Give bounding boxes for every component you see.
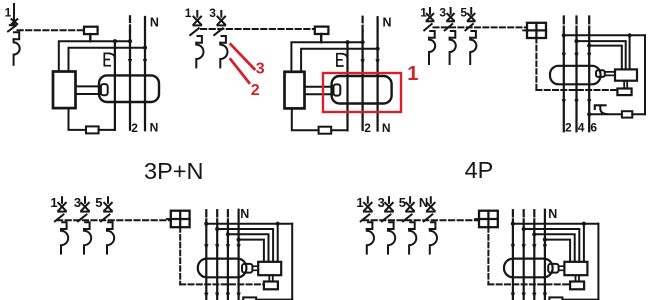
wire: test button left stub	[167, 218, 171, 220]
svg-text:N: N	[383, 16, 392, 30]
svg-text:5: 5	[460, 5, 467, 19]
wire: conductor L1	[512, 219, 514, 300]
node: L1 tap	[562, 33, 566, 37]
relay bottom stub	[269, 275, 273, 281]
relay K4	[258, 262, 281, 275]
wire: L2 tap to relay	[577, 41, 626, 69]
contact: N	[236, 244, 240, 249]
breaker pole 1	[424, 8, 435, 64]
current transformer CT1 (toroid)	[99, 75, 159, 102]
wire: conductor L1 stub	[205, 210, 207, 216]
wire: phase conductor L2 stub	[575, 17, 577, 24]
breaker pole 5	[403, 197, 416, 253]
node: relay feed junction	[628, 33, 632, 37]
node: L2 tap	[215, 227, 219, 231]
contact: neutral	[143, 59, 147, 64]
svg-text:1: 1	[407, 63, 418, 85]
wire: test button left stub	[523, 29, 527, 31]
wire: right rail	[644, 35, 646, 114]
node: L3 tap	[226, 232, 230, 236]
relay bottom stub	[624, 81, 627, 89]
CT pickup plug	[548, 264, 558, 273]
wire: test link (dashed horizontal)	[180, 283, 264, 285]
CT pickup plug	[242, 264, 252, 273]
wire: CT to relay bus	[252, 266, 258, 270]
wire: phase conductor L1	[563, 27, 565, 132]
breaker pole N	[424, 197, 437, 253]
relay K5	[564, 262, 587, 275]
wire: CT to relay bus	[305, 87, 334, 95]
test button T1	[84, 27, 98, 34]
test button T3 (cross box)	[527, 23, 546, 38]
wire: neutral conductor	[376, 17, 378, 130]
wire: neutral conductor	[144, 17, 146, 130]
wire: test resistor run	[256, 299, 292, 300]
test button cross	[479, 211, 498, 228]
wire: L1 tap to right rail	[564, 34, 645, 36]
resistor R2 (test)	[319, 127, 332, 134]
test button T5 (cross box)	[479, 211, 498, 228]
svg-text:2: 2	[364, 121, 371, 135]
node: L2 tap	[522, 227, 526, 231]
contact: L2 lower	[522, 293, 526, 298]
svg-text:N: N	[150, 121, 159, 135]
svg-text:N: N	[382, 121, 391, 135]
node: test junction	[587, 112, 591, 116]
CT pickup plug	[101, 84, 108, 95]
current transformer CT2 (toroid)	[332, 76, 392, 104]
wire: L2 tap to relay	[524, 229, 580, 262]
contact: L1	[204, 244, 208, 249]
breaker pole 1	[361, 197, 374, 253]
wire: L1 tap to right rail	[513, 223, 599, 225]
wire: conductor L2	[216, 219, 218, 300]
wire: conductor L3 stub	[227, 210, 229, 216]
wire: N tap to relay	[545, 240, 570, 262]
wire: conductor L1 stub	[512, 210, 514, 216]
contact: N lower	[543, 293, 547, 298]
svg-text:3P+N: 3P+N	[144, 158, 203, 184]
wire: pole conductor	[129, 31, 131, 130]
wire: test link (dashed horizontal)	[536, 89, 617, 91]
node: L2 tap	[574, 39, 578, 43]
current transformer CT5 (toroid)	[504, 259, 553, 278]
wire: neutral conductor	[238, 210, 240, 300]
wire: relay to N line (lower)	[69, 48, 146, 72]
svg-text:N: N	[548, 207, 557, 221]
wire: CT to relay bus	[605, 72, 615, 76]
test button cross	[527, 23, 546, 38]
svg-text:N: N	[240, 207, 249, 221]
test button T4 (cross box)	[171, 211, 190, 228]
resistor R4 (test)	[243, 297, 256, 300]
contact: L1 lower	[204, 293, 208, 298]
breaker pole 1	[55, 197, 68, 253]
wire: conductor L2 stub	[216, 210, 218, 216]
breaker pole 3	[78, 197, 91, 253]
callout box 1 (CT detection)	[323, 73, 401, 112]
contact: L3 lower	[226, 293, 230, 298]
wire: test link (dashed vertical)	[487, 227, 489, 284]
svg-text:4P: 4P	[465, 157, 494, 183]
relay bottom stub	[576, 275, 580, 281]
svg-text:1: 1	[5, 6, 12, 20]
wire: N tap to relay	[239, 240, 264, 262]
svg-text:1: 1	[356, 195, 363, 210]
contact: L3	[226, 244, 230, 249]
node: N tap	[543, 238, 547, 242]
node: L3 tap	[587, 44, 591, 48]
contact: L3 lower	[587, 99, 591, 104]
wire: phase conductor L3	[588, 27, 590, 132]
contact: L2	[215, 244, 219, 249]
terminal block (trip output)	[617, 89, 631, 96]
wire: conductor L3	[533, 219, 535, 300]
wire: conductor L2 stub	[523, 210, 525, 216]
breaker pole 1	[190, 11, 203, 67]
wire: pole conductor	[361, 31, 363, 130]
wire: test link (dashed vertical)	[179, 227, 181, 284]
terminal block (trip output)	[264, 282, 278, 290]
wire: L3 tap to relay	[534, 234, 574, 261]
resistor R5 (test)	[549, 297, 562, 300]
wire: conductor L2	[523, 219, 525, 300]
contact: pole	[360, 59, 364, 64]
wire: relay to pole line (upper)	[291, 42, 362, 72]
trip solenoid E symbol	[337, 54, 343, 66]
node: test tap junction	[113, 39, 117, 43]
wire: pole conductor (dashed supply)	[129, 16, 131, 30]
node: relay feed junction	[276, 222, 280, 226]
breaker pole 3	[445, 8, 456, 64]
terminal block (trip output)	[570, 282, 584, 290]
contact: L1 lower	[511, 293, 515, 298]
contact: L3	[532, 244, 536, 249]
current transformer CT4 (toroid)	[198, 259, 247, 278]
breaker pole 3	[382, 197, 395, 253]
contact: L3 lower	[532, 293, 536, 298]
svg-text:4: 4	[578, 120, 585, 134]
contact: L1 lower	[562, 99, 566, 104]
wire: test return	[292, 108, 348, 130]
svg-text:3: 3	[209, 6, 216, 20]
contact: L2	[522, 244, 526, 249]
wire: L1 tap to right rail	[206, 223, 292, 225]
contact: L1	[511, 244, 515, 249]
wire: CT to relay bus	[76, 86, 101, 94]
wire: test button stub	[320, 34, 322, 42]
wire: pole conductor (dashed supply)	[361, 17, 363, 31]
svg-text:6: 6	[590, 120, 597, 134]
wire: right rail	[291, 224, 293, 300]
node: pole line junction	[128, 39, 132, 43]
wire: test button stub	[89, 34, 91, 41]
wire: CT to relay bus	[559, 266, 565, 270]
wire: relay drop 1	[629, 35, 631, 69]
wire: test resistor run	[589, 113, 645, 115]
contact: L2	[574, 53, 578, 58]
contact: neutral	[375, 59, 379, 64]
wire: neutral conductor	[544, 210, 546, 300]
svg-text:2: 2	[565, 120, 572, 134]
contact: L1	[562, 53, 566, 58]
test switch contact hook	[595, 105, 607, 114]
svg-text:3: 3	[378, 195, 385, 210]
wire: test link (dashed horizontal)	[488, 283, 570, 285]
wire: L2 tap to relay	[217, 229, 273, 262]
node: N line junction	[143, 46, 147, 50]
wire: conductor L1	[205, 219, 207, 300]
resistor R3 (test)	[622, 111, 632, 117]
contact: L2 lower	[574, 99, 578, 104]
wire: relay drop 1	[583, 224, 585, 262]
callout line 2 (magnetic release)	[230, 58, 250, 84]
wire: mechanical linkage (dashed)	[201, 28, 315, 30]
svg-text:1: 1	[50, 195, 57, 210]
wire: relay drop 1	[277, 224, 279, 262]
svg-text:3: 3	[439, 5, 446, 19]
wire: right rail	[597, 224, 599, 300]
svg-text:5: 5	[95, 195, 102, 210]
CT pickup plug	[596, 70, 605, 77]
breaker pole 5	[465, 8, 476, 64]
breaker pole 3	[214, 11, 227, 67]
relay K3	[615, 69, 637, 80]
contact: L3	[587, 53, 591, 58]
callout line 3 (thermal release)	[230, 43, 256, 70]
wire: relay to pole line (upper)	[59, 41, 130, 71]
contact: N	[543, 244, 547, 249]
wire: phase conductor L2	[575, 27, 577, 132]
svg-text:5: 5	[399, 195, 406, 210]
wire: conductor L3	[227, 219, 229, 300]
wire: mechanical linkage (dashed)	[18, 29, 84, 31]
node: L1 tap	[511, 222, 515, 226]
current transformer CT3 (toroid)	[550, 66, 601, 85]
wire: E link curve	[110, 54, 115, 59]
node: relay feed junction	[582, 222, 586, 226]
wire: phase conductor L3 stub	[588, 17, 590, 24]
trip solenoid E symbol	[104, 53, 110, 65]
svg-text:1: 1	[185, 6, 192, 20]
svg-text:N: N	[150, 15, 159, 29]
contact: pole	[128, 59, 132, 64]
node: test tap junction	[345, 40, 349, 44]
wire: test return	[69, 108, 115, 130]
test button cross	[171, 211, 190, 228]
node: N line junction	[376, 47, 380, 51]
contact: L2 lower	[215, 293, 219, 298]
svg-text:2: 2	[131, 121, 138, 135]
breaker pole 5	[101, 197, 114, 253]
node: pole line junction	[361, 40, 365, 44]
breaker pole 1	[8, 4, 20, 65]
node: L1 tap	[204, 222, 208, 226]
node: N tap	[237, 238, 241, 242]
wire: phase conductor L1 stub	[563, 17, 565, 24]
wire: mechanical linkage (dashed)	[434, 26, 528, 28]
wire: test conductor through CT	[346, 42, 348, 130]
red callouts of diagram 2	[230, 43, 419, 112]
svg-text:1: 1	[420, 5, 427, 19]
wire: mechanical linkage (dashed)	[363, 219, 479, 221]
wire: mechanical linkage (dashed)	[57, 219, 171, 221]
resistor R1 (test)	[86, 126, 99, 133]
wire: test conductor through CT	[114, 41, 116, 130]
test button T2	[315, 27, 329, 34]
wire: test button left stub	[475, 218, 479, 220]
wire: L3 tap to relay	[589, 46, 622, 70]
wire: test resistor run	[562, 299, 598, 300]
relay K1	[53, 72, 76, 109]
contact: N lower	[236, 293, 240, 298]
wire: L3 tap to relay	[228, 234, 269, 261]
wire: relay to N line (lower)	[301, 49, 378, 72]
CT pickup plug	[334, 84, 341, 95]
svg-text:2: 2	[251, 82, 260, 99]
wire: E link curve	[343, 54, 348, 59]
svg-text:3: 3	[256, 61, 265, 78]
wire: conductor L3 stub	[533, 210, 535, 216]
relay K2	[285, 72, 305, 109]
wire: test link (dashed vertical)	[535, 38, 537, 90]
node: L3 tap	[532, 232, 536, 236]
